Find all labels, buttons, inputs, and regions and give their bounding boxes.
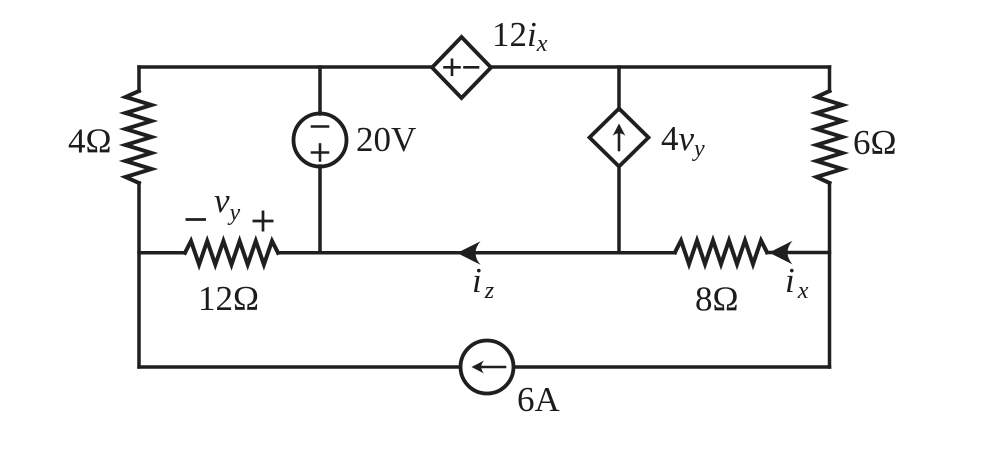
label 6A	[517, 380, 561, 419]
wire right rail top stub	[828, 67, 832, 91]
label iz	[472, 261, 495, 304]
minus sign inside 12ix diamond	[465, 66, 479, 69]
label 4vy	[661, 119, 705, 162]
svg-text:6Ω: 6Ω	[853, 123, 897, 162]
resistor R 4ohm zigzag	[126, 91, 152, 183]
label 8ohm	[695, 280, 739, 319]
wire left rail top stub	[137, 67, 141, 91]
resistor R 6ohm zigzag	[817, 91, 843, 183]
label ix	[785, 261, 809, 304]
arrow inside 6A source	[479, 366, 505, 369]
wire 4vy branch lower	[617, 167, 621, 253]
wire middle rail left stub	[139, 251, 185, 255]
svg-text:12ix: 12ix	[492, 15, 548, 57]
label 12ohm	[198, 279, 259, 318]
voltage source 20V circle	[294, 114, 347, 167]
current arrow ix on middle rail	[769, 241, 793, 265]
wire middle rail right segment	[767, 251, 830, 255]
label 20V	[356, 120, 416, 159]
plus sign inside 20V source	[312, 145, 328, 161]
label vy with polarity	[186, 181, 274, 232]
wire 20V branch upper	[318, 67, 322, 114]
svg-text:4vy: 4vy	[661, 119, 705, 162]
current source 6A circle	[461, 341, 514, 394]
resistor R 8ohm zigzag	[675, 241, 767, 265]
current arrow iz on middle rail	[457, 241, 481, 265]
label 6ohm	[853, 123, 897, 162]
wire right rail lower segment	[828, 183, 832, 367]
svg-text:iz: iz	[472, 261, 495, 304]
label 4ohm	[68, 122, 112, 161]
wire 20V branch lower	[318, 166, 322, 253]
minus sign inside 20V source	[312, 125, 328, 128]
svg-text:12Ω: 12Ω	[198, 279, 259, 318]
svg-text:4Ω: 4Ω	[68, 122, 112, 161]
wire top rail right segment	[491, 65, 830, 69]
label 12ix	[492, 15, 548, 57]
svg-text:vy: vy	[214, 181, 241, 226]
wire left rail lower segment	[137, 183, 141, 367]
wire 4vy branch upper	[617, 67, 621, 110]
svg-text:ix: ix	[785, 261, 809, 304]
svg-text:20V: 20V	[356, 120, 416, 159]
svg-text:8Ω: 8Ω	[695, 280, 739, 319]
resistor R 12ohm zigzag	[185, 241, 278, 265]
wire bottom rail left segment	[139, 365, 460, 369]
wire top rail left segment	[139, 65, 432, 69]
arrow inside 4vy diamond	[618, 130, 621, 150]
svg-text:6A: 6A	[517, 380, 561, 419]
dependent source 4vy diamond	[590, 109, 649, 167]
wire bottom rail right segment	[514, 365, 830, 369]
dependent source 12ix diamond	[432, 37, 491, 98]
wire middle rail centre segment	[278, 251, 675, 255]
plus sign inside 12ix diamond	[445, 60, 460, 75]
